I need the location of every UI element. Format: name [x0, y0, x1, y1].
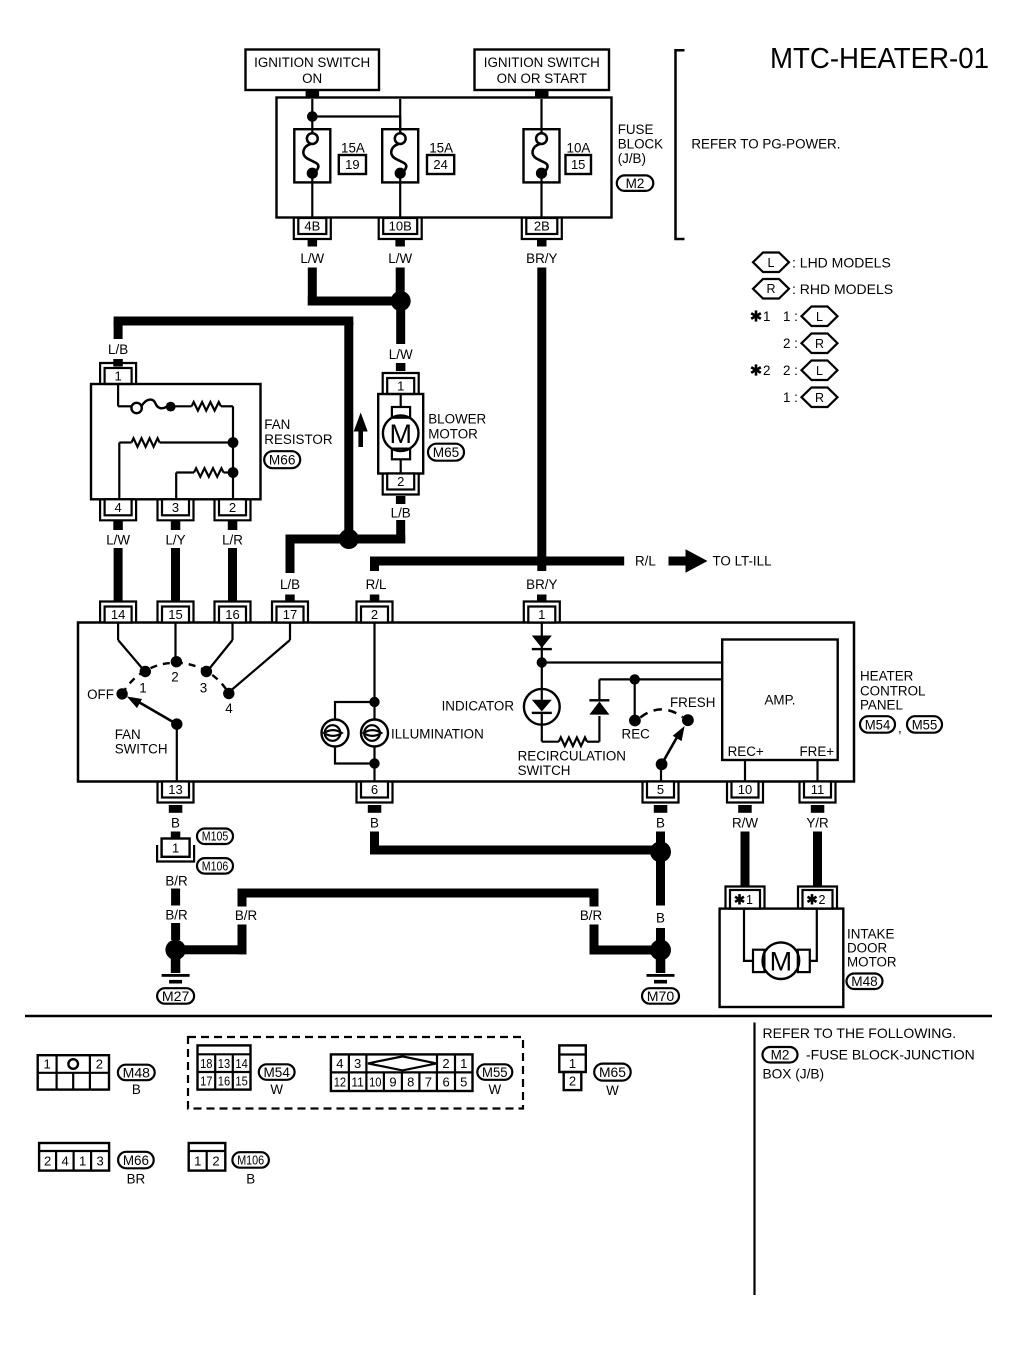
svg-text:M2: M2: [626, 176, 645, 191]
svg-text:: LHD MODELS: : LHD MODELS: [792, 254, 891, 270]
svg-text:(J/B): (J/B): [618, 151, 646, 166]
svg-text:RECIRCULATION: RECIRCULATION: [518, 748, 626, 763]
svg-text:B: B: [656, 815, 665, 830]
svg-text:2: 2: [171, 669, 178, 684]
svg-text:2 :: 2 :: [783, 363, 798, 378]
svg-text:FRESH: FRESH: [670, 695, 715, 710]
svg-text:: RHD MODELS: : RHD MODELS: [792, 281, 893, 297]
svg-text:B/R: B/R: [165, 873, 188, 888]
svg-text:L/R: L/R: [222, 532, 243, 547]
svg-text:BR: BR: [127, 1171, 146, 1186]
svg-text:4B: 4B: [304, 219, 320, 234]
svg-text:BOX (J/B): BOX (J/B): [763, 1066, 825, 1081]
svg-text:11: 11: [351, 1074, 363, 1089]
svg-text:2: 2: [371, 607, 378, 622]
svg-text:MOTOR: MOTOR: [428, 426, 478, 441]
svg-text:M54: M54: [865, 717, 891, 732]
svg-text:SWITCH: SWITCH: [518, 763, 571, 778]
svg-text:1: 1: [43, 1057, 50, 1072]
svg-text:10A: 10A: [567, 141, 591, 156]
svg-text:10: 10: [369, 1074, 381, 1089]
svg-text:15: 15: [168, 607, 182, 622]
svg-text:M66: M66: [123, 1153, 149, 1168]
svg-text:M106: M106: [202, 859, 229, 873]
svg-text:ON OR START: ON OR START: [497, 71, 587, 86]
svg-text:R/W: R/W: [732, 815, 758, 830]
svg-text:2: 2: [569, 1074, 576, 1089]
svg-text:4: 4: [336, 1056, 343, 1071]
svg-text:M27: M27: [162, 989, 190, 1004]
svg-text:ILLUMINATION: ILLUMINATION: [391, 726, 484, 741]
svg-text:13: 13: [168, 782, 182, 797]
svg-text:L/W: L/W: [389, 347, 413, 362]
svg-text:L: L: [768, 256, 775, 270]
svg-text:R: R: [766, 282, 775, 296]
svg-text:1: 1: [114, 369, 121, 384]
svg-text:2: 2: [763, 363, 770, 378]
svg-text:17: 17: [200, 1074, 212, 1089]
svg-text:13: 13: [218, 1056, 230, 1071]
svg-text:FRE+: FRE+: [800, 744, 835, 759]
svg-text:2: 2: [819, 893, 826, 907]
svg-text:M55: M55: [482, 1065, 508, 1080]
svg-text:INDICATOR: INDICATOR: [442, 699, 515, 714]
svg-text:B: B: [246, 1171, 255, 1186]
svg-text:R: R: [815, 337, 824, 351]
svg-text:1: 1: [763, 309, 770, 324]
svg-text:OFF: OFF: [87, 687, 114, 702]
svg-text:L/B: L/B: [391, 506, 411, 521]
svg-text:L: L: [816, 310, 823, 324]
svg-text:PANEL: PANEL: [860, 697, 903, 712]
svg-text:1: 1: [172, 840, 179, 855]
svg-text:W: W: [488, 1082, 501, 1097]
svg-text:6: 6: [371, 782, 378, 797]
svg-text:W: W: [270, 1082, 283, 1097]
svg-text:R/L: R/L: [635, 553, 656, 568]
svg-text:L/B: L/B: [108, 342, 128, 357]
svg-text:R/L: R/L: [366, 577, 387, 592]
svg-text:R: R: [815, 391, 824, 405]
svg-text:M48: M48: [851, 974, 878, 989]
svg-text:W: W: [606, 1083, 619, 1098]
svg-text:3: 3: [200, 680, 207, 695]
svg-text:L/Y: L/Y: [165, 532, 185, 547]
svg-text:IGNITION SWITCH: IGNITION SWITCH: [484, 55, 600, 70]
svg-text:2: 2: [442, 1056, 449, 1071]
svg-text:REFER TO PG-POWER.: REFER TO PG-POWER.: [691, 136, 840, 151]
svg-text:1: 1: [569, 1056, 576, 1071]
svg-text:M: M: [389, 419, 412, 449]
svg-text:M70: M70: [647, 989, 675, 1004]
svg-text:9: 9: [389, 1074, 396, 1089]
svg-text:DOOR: DOOR: [847, 940, 888, 955]
svg-text:SWITCH: SWITCH: [115, 741, 168, 756]
svg-text:FUSE: FUSE: [618, 122, 654, 137]
svg-text:INTAKE: INTAKE: [847, 926, 894, 941]
svg-text:14: 14: [111, 607, 125, 622]
svg-text:16: 16: [218, 1074, 230, 1089]
svg-text:B/R: B/R: [580, 908, 603, 923]
svg-text:15: 15: [571, 157, 585, 172]
svg-text:18: 18: [200, 1056, 212, 1071]
svg-text:BR/Y: BR/Y: [526, 251, 557, 266]
svg-text:1: 1: [194, 1154, 201, 1169]
svg-text:4: 4: [61, 1154, 68, 1169]
svg-text:BR/Y: BR/Y: [526, 577, 557, 592]
svg-text:Y/R: Y/R: [806, 815, 829, 830]
svg-text:L: L: [816, 364, 823, 378]
svg-text:M105: M105: [202, 830, 229, 844]
svg-text:FAN: FAN: [115, 727, 141, 742]
svg-text:M: M: [770, 946, 793, 976]
svg-text:ON: ON: [302, 71, 322, 86]
svg-text:TO LT-ILL: TO LT-ILL: [713, 553, 772, 568]
svg-text:REC+: REC+: [728, 744, 764, 759]
svg-text:M66: M66: [269, 453, 296, 468]
svg-text:1: 1: [538, 607, 545, 622]
svg-text:2: 2: [212, 1154, 219, 1169]
svg-text:12: 12: [334, 1074, 346, 1089]
svg-text:5: 5: [657, 782, 664, 797]
svg-text:4: 4: [225, 701, 233, 716]
svg-text:17: 17: [283, 607, 297, 622]
svg-text:15: 15: [235, 1074, 247, 1089]
svg-text:2: 2: [96, 1057, 103, 1072]
svg-text:BLOCK: BLOCK: [618, 136, 663, 151]
svg-text:MOTOR: MOTOR: [847, 954, 897, 969]
svg-text:1: 1: [746, 893, 753, 907]
svg-text:15A: 15A: [429, 141, 453, 156]
svg-text:L/B: L/B: [280, 577, 300, 592]
svg-text:10B: 10B: [389, 219, 412, 234]
svg-text:5: 5: [460, 1074, 467, 1089]
svg-text:10: 10: [738, 782, 752, 797]
svg-text:AMP.: AMP.: [764, 692, 795, 707]
svg-text:19: 19: [345, 157, 359, 172]
svg-text:24: 24: [433, 157, 447, 172]
svg-text:FAN: FAN: [264, 417, 290, 432]
svg-text:REC: REC: [622, 726, 651, 741]
svg-text:L/W: L/W: [388, 251, 412, 266]
svg-text:8: 8: [407, 1074, 414, 1089]
svg-text:2: 2: [44, 1154, 51, 1169]
svg-text:B: B: [132, 1082, 141, 1097]
svg-text:IGNITION SWITCH: IGNITION SWITCH: [254, 55, 370, 70]
svg-text:,: ,: [898, 720, 902, 735]
svg-text:16: 16: [225, 607, 239, 622]
svg-text:1 :: 1 :: [783, 390, 798, 405]
svg-text:B: B: [370, 815, 379, 830]
svg-text:11: 11: [811, 782, 825, 797]
svg-text:HEATER: HEATER: [860, 668, 914, 683]
svg-text:3: 3: [96, 1154, 103, 1169]
svg-text:M65: M65: [433, 445, 460, 460]
svg-text:-FUSE BLOCK-JUNCTION: -FUSE BLOCK-JUNCTION: [806, 1047, 975, 1063]
svg-text:B: B: [171, 815, 180, 830]
svg-text:6: 6: [442, 1074, 449, 1089]
svg-text:3: 3: [172, 500, 179, 515]
svg-text:2B: 2B: [534, 219, 550, 234]
svg-text:B/R: B/R: [235, 908, 258, 923]
svg-text:2 :: 2 :: [783, 336, 798, 351]
svg-text:1: 1: [397, 379, 404, 394]
svg-text:7: 7: [425, 1074, 432, 1089]
svg-text:3: 3: [354, 1056, 361, 1071]
svg-text:RESISTOR: RESISTOR: [264, 432, 333, 447]
svg-text:2: 2: [229, 500, 236, 515]
svg-text:L/W: L/W: [300, 251, 324, 266]
svg-text:15A: 15A: [341, 141, 365, 156]
svg-text:MTC-HEATER-01: MTC-HEATER-01: [770, 43, 989, 75]
svg-text:2: 2: [397, 474, 404, 489]
svg-text:B/R: B/R: [165, 907, 188, 922]
svg-text:M65: M65: [599, 1065, 626, 1080]
svg-text:14: 14: [235, 1056, 247, 1071]
svg-text:1: 1: [139, 680, 146, 695]
svg-text:M55: M55: [912, 717, 938, 732]
svg-text:L/W: L/W: [106, 532, 130, 547]
svg-text:1: 1: [79, 1154, 86, 1169]
svg-text:1: 1: [460, 1056, 467, 1071]
svg-text:CONTROL: CONTROL: [860, 683, 925, 698]
svg-text:BLOWER: BLOWER: [428, 411, 486, 426]
svg-text:1 :: 1 :: [783, 309, 798, 324]
svg-text:REFER TO THE FOLLOWING.: REFER TO THE FOLLOWING.: [763, 1025, 957, 1041]
svg-text:4: 4: [114, 500, 121, 515]
svg-text:M48: M48: [123, 1065, 150, 1080]
svg-text:M2: M2: [771, 1048, 790, 1063]
svg-text:B: B: [656, 910, 665, 925]
svg-text:M106: M106: [237, 1154, 264, 1168]
svg-text:M54: M54: [264, 1065, 291, 1080]
